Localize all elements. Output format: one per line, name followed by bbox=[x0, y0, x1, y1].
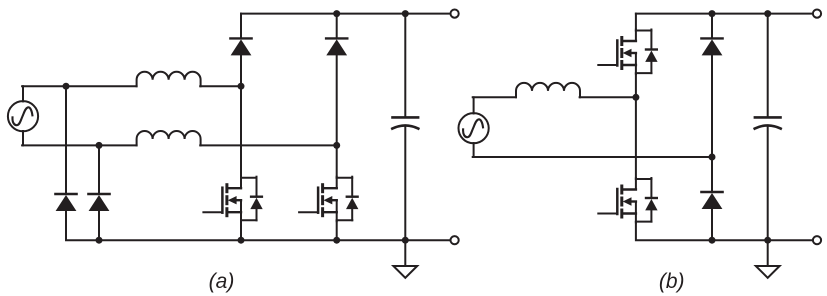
wire: DL anode down to bottom rail (b) bbox=[711, 209, 713, 240]
inductor L (b) bbox=[516, 83, 580, 97]
wire: D1 anode down to boost node (a) bbox=[240, 55, 242, 86]
wire: boost node down to Q2 drain (a) bbox=[336, 145, 338, 177]
junction: L1 / D1 / Q1 node (a) bbox=[238, 83, 245, 90]
wire: source return line to diode midpoint (b) bbox=[473, 156, 712, 158]
diode D1 (a) bbox=[230, 38, 251, 55]
junction: Q2 / bottom rail (a) bbox=[333, 237, 340, 244]
junction: Q1 / bottom rail (a) bbox=[238, 237, 245, 244]
wire: Vac bottom lead down (a) bbox=[22, 131, 24, 145]
wire: D3 anode to bottom rail corner (a) bbox=[66, 211, 99, 240]
wire: D1 cathode to top rail (a) bbox=[240, 14, 242, 39]
ac source Vac (b) bbox=[459, 113, 489, 143]
diode DH (b) bbox=[701, 38, 722, 55]
wire: Vac top lead up (a) bbox=[22, 86, 24, 101]
wire: D2 anode down to boost node (a) bbox=[336, 55, 338, 145]
junction: D3 tap on top input line (a) bbox=[63, 83, 70, 90]
ground (b) bbox=[756, 266, 780, 278]
wire: D2 cathode to top rail (a) bbox=[336, 14, 338, 39]
wire: source to L (b) bbox=[473, 96, 516, 98]
diode D3 (a) bbox=[55, 194, 76, 211]
transistor Q2 (a) bbox=[299, 177, 358, 222]
svg-text:(b): (b) bbox=[659, 270, 685, 293]
label (b) bbox=[659, 270, 685, 293]
terminal: DC+ output (b) bbox=[813, 10, 821, 18]
wire: Cout bottom down to bottom rail (a) bbox=[404, 127, 406, 240]
wire: Vac top lead up (b) bbox=[473, 97, 475, 113]
wire: boost node down to Q1 drain (a) bbox=[240, 86, 242, 178]
svg-text:(a): (a) bbox=[209, 270, 235, 293]
wire: D4 anode down to bottom rail (a) bbox=[98, 211, 100, 240]
capacitor Cout (b) bbox=[755, 117, 781, 128]
transistor Q1 (a) bbox=[203, 177, 262, 222]
wire: L2 to boost node (a) bbox=[200, 144, 337, 146]
wire: D3 cathode lead down to bar (a) bbox=[65, 86, 67, 194]
wire: top rail down to Cout (b) bbox=[767, 14, 769, 118]
ac source Vac (a) bbox=[8, 101, 38, 131]
diode D4 (a) bbox=[88, 194, 109, 211]
label (a) bbox=[209, 270, 235, 293]
inductor L2 (a) bbox=[137, 131, 201, 145]
wire: top input line to L1 (a) bbox=[22, 85, 137, 87]
wire: switch node down to QL drain (b) bbox=[635, 97, 637, 179]
wire: top rail down to Cout (a) bbox=[404, 14, 406, 118]
junction: Cout top / top rail (a) bbox=[402, 10, 409, 17]
wire: Cout bottom down to bottom rail (b) bbox=[767, 127, 769, 240]
wire: bottom rail (a) bbox=[99, 239, 450, 241]
wire: bottom input line to L2 (a) bbox=[22, 144, 137, 146]
wire: ground stem (a) bbox=[404, 240, 406, 266]
transistor QH (b) bbox=[598, 30, 657, 75]
junction: diode-leg midpoint (b) bbox=[709, 154, 716, 161]
wire: DH cathode to top rail (b) bbox=[711, 14, 713, 39]
wire: Vac bottom lead down (b) bbox=[473, 143, 475, 157]
junction: Cout bottom / bottom rail (a) bbox=[402, 237, 409, 244]
wire: QH source down to switch node (b) bbox=[635, 74, 637, 98]
wire: ground stem (b) bbox=[767, 240, 769, 266]
junction: L2 / D2 / Q2 node (a) bbox=[333, 142, 340, 149]
wire: L1 to boost node (a) bbox=[200, 85, 241, 87]
wire: L to switch node (b) bbox=[580, 96, 636, 98]
diode DL (b) bbox=[701, 192, 722, 209]
junction: Cout top / top rail (b) bbox=[764, 10, 771, 17]
junction: DH / top rail (b) bbox=[709, 10, 716, 17]
ground (a) bbox=[393, 266, 417, 278]
junction: D4 / bottom rail (a) bbox=[96, 237, 103, 244]
junction: Cout bottom / bottom rail (b) bbox=[764, 237, 771, 244]
terminal: DC- output (a) bbox=[451, 236, 459, 244]
wire: Q2 source to bottom rail (a) bbox=[336, 221, 338, 241]
junction: switch node (b) bbox=[632, 94, 639, 101]
junction: D4 tap on bottom input line (a) bbox=[96, 142, 103, 149]
capacitor Cout (a) bbox=[392, 117, 418, 128]
wire: top output rail (a) bbox=[241, 13, 450, 15]
transistor QL (b) bbox=[598, 178, 657, 223]
wire: D4 cathode lead down to bar (a) bbox=[98, 145, 100, 194]
wire: QL source to bottom rail corner (b) bbox=[636, 222, 712, 240]
wire: DH anode down to midpoint (b) bbox=[711, 55, 713, 157]
junction: DL / bottom rail (b) bbox=[709, 237, 716, 244]
wire: bottom rail (b) bbox=[712, 239, 812, 241]
wire: Q1 source to bottom rail (a) bbox=[240, 221, 242, 241]
inductor L1 (a) bbox=[137, 72, 201, 86]
wire: midpoint down to DL cathode (b) bbox=[711, 157, 713, 192]
wire: QH drain from top rail (b) bbox=[635, 14, 637, 31]
terminal: DC+ output (a) bbox=[451, 10, 459, 18]
wire: top output rail (b) bbox=[636, 13, 812, 15]
diode D2 (a) bbox=[326, 38, 347, 55]
terminal: DC- output (b) bbox=[813, 236, 821, 244]
junction: D2 / top rail (a) bbox=[333, 10, 340, 17]
